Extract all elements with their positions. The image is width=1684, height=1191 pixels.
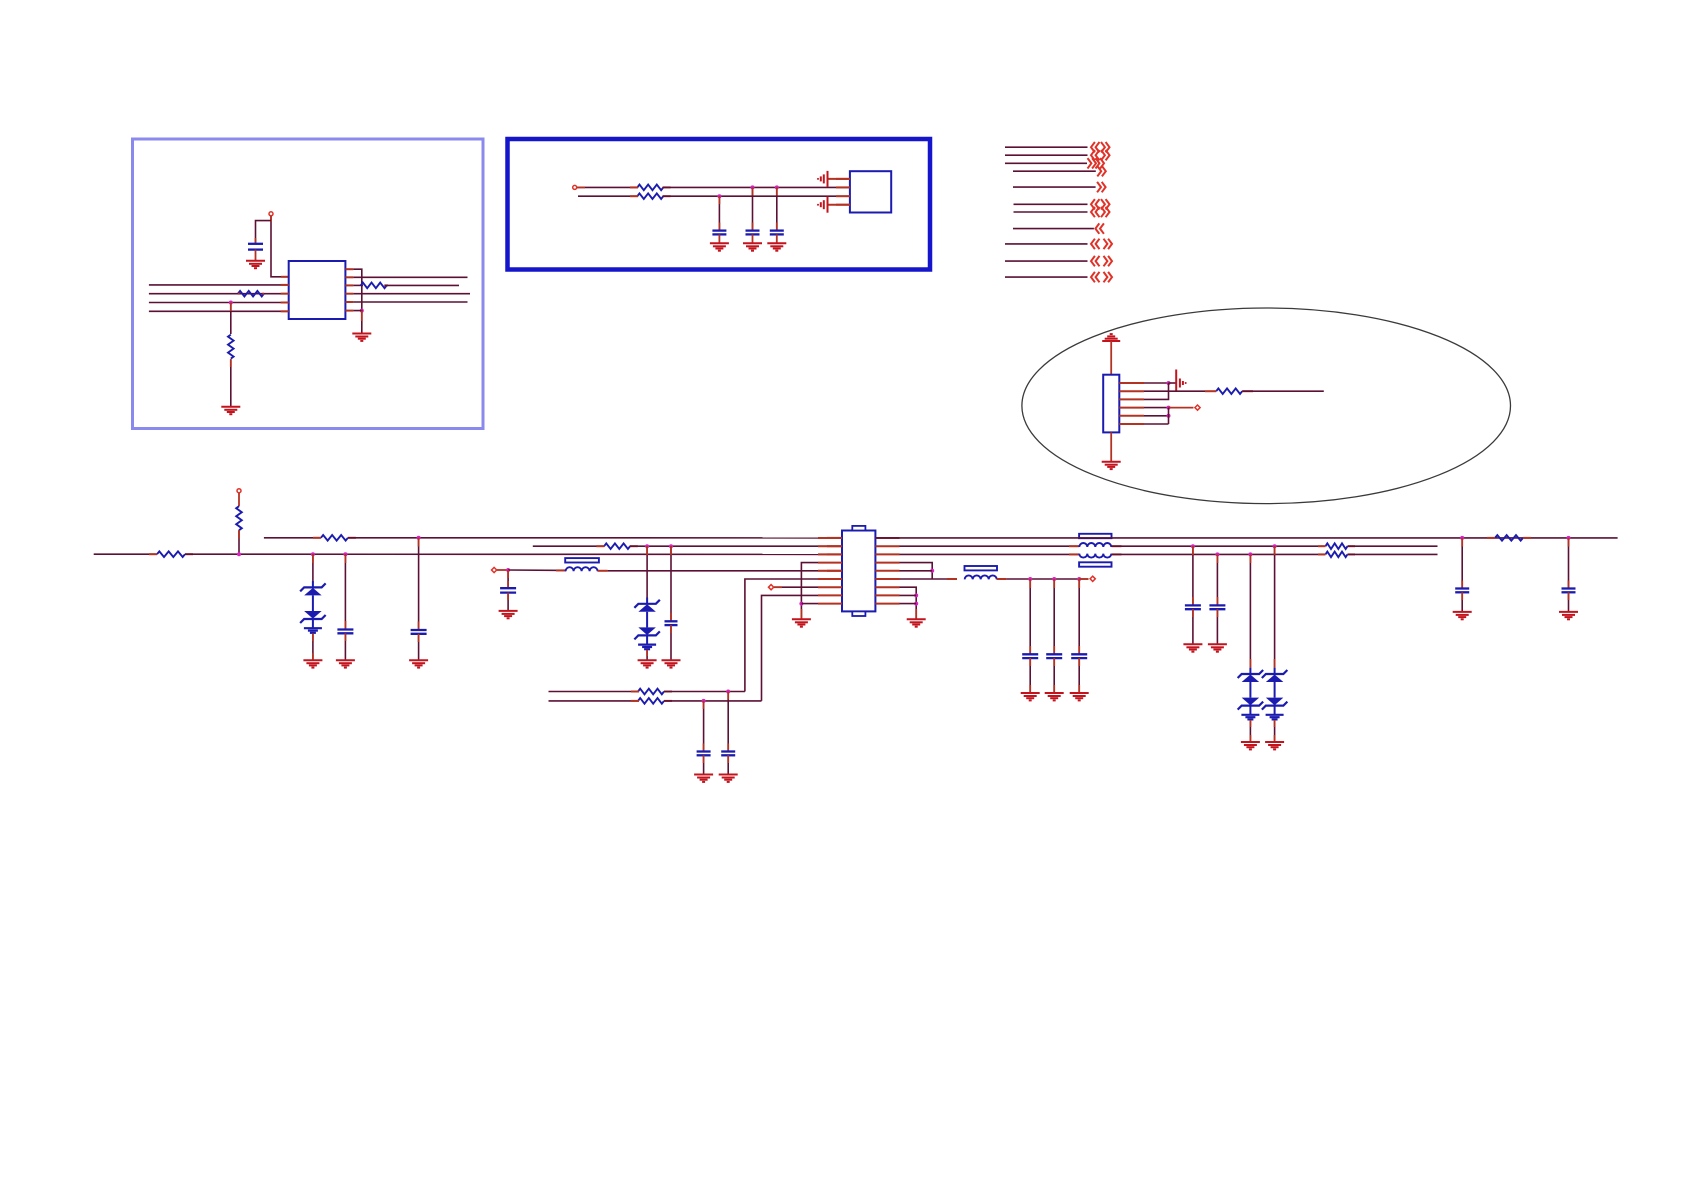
resistor R7 <box>1216 388 1242 394</box>
ground J2 pin1 (sideways) <box>1176 370 1187 391</box>
resistor RC <box>321 535 348 541</box>
zener D3 pair <box>1238 670 1264 715</box>
wire harness net 1 <box>1005 146 1088 148</box>
wire harness net 10 <box>1005 260 1088 262</box>
zener D3 pair blue earth <box>1241 715 1259 720</box>
wire harness net 9 <box>1005 243 1088 245</box>
wire J2 pin3 tie <box>1144 383 1169 399</box>
junction Z3 <box>1248 552 1252 556</box>
chevron port left 1 <box>1091 142 1100 152</box>
red stub C11 b <box>1078 646 1080 654</box>
red stub Z3 d <box>1249 735 1251 742</box>
pin red stub U1 R y538.0 <box>875 537 899 539</box>
wire P2 lower <box>578 195 638 197</box>
pin red stub U1 L y562.6 <box>818 562 842 564</box>
pin red stub U2 left y293.7 <box>281 293 289 295</box>
ground C7 <box>662 660 681 667</box>
red stub C3 mid <box>752 223 754 231</box>
junction J2 pin1 <box>1167 381 1171 385</box>
capacitor C17 <box>697 752 711 756</box>
wire C17 gnd <box>703 755 705 774</box>
junction C4 tap <box>775 185 779 189</box>
chevron port right 2 <box>1101 150 1110 160</box>
junction C2 tap <box>717 194 721 198</box>
ground C3 <box>743 243 762 250</box>
red stub C10 a <box>1053 579 1055 588</box>
red stubs RG <box>1318 553 1355 555</box>
red stub C5 b <box>344 621 346 630</box>
wire C6 gnd <box>418 634 420 660</box>
wire J2 pin4 to port <box>1169 407 1194 409</box>
IC U1 bottom tab <box>852 611 865 616</box>
wire Z1 drop <box>312 554 314 581</box>
chevron port right 5 <box>1097 182 1106 192</box>
wire Z4 gnd <box>1274 720 1276 742</box>
wire C12 drop <box>1461 538 1463 589</box>
port PD2 <box>492 567 497 572</box>
red stub C4 mid <box>776 223 778 231</box>
ground J2 top (inverted) <box>1102 334 1120 341</box>
IC U1 <box>842 531 875 612</box>
red stub C7 b <box>670 613 672 621</box>
ground U1 right <box>907 619 926 626</box>
red stubs RD <box>596 545 637 547</box>
junction U2 line3 <box>229 301 233 305</box>
junction C8 tap <box>506 568 510 572</box>
resistor RA <box>157 551 185 557</box>
junction C6 bus B <box>417 536 421 540</box>
red stub Z2 top <box>646 546 648 555</box>
wire R3 pulldown top <box>230 303 232 335</box>
red stub C5 c <box>344 633 346 641</box>
red stubs R5 <box>630 186 671 188</box>
ground D2 <box>638 660 657 667</box>
wire U1 q4 tie <box>900 563 933 579</box>
resistor R2 (U2 left line 2) <box>238 291 264 297</box>
red stub C7 a <box>670 546 672 555</box>
pin red stub U1 R y546.2 <box>875 545 899 547</box>
ground D4 <box>1265 742 1284 749</box>
transformer T1 common-mode choke <box>1079 534 1111 538</box>
wire J2 pin6 tie <box>1144 423 1169 425</box>
wire J2 pin456 vertical <box>1168 408 1170 424</box>
junction C3 tap <box>751 185 755 189</box>
wire U2 right line3a <box>353 284 363 286</box>
zener D2 pair blue earth <box>638 645 656 650</box>
capacitor C3 <box>746 231 760 235</box>
red stub U2 gnd col <box>361 311 363 321</box>
red stub R3 bottom <box>230 359 232 367</box>
wire U1 p9 tie <box>801 603 818 605</box>
wire C9 gnd <box>1029 658 1031 693</box>
wire Z3 gnd <box>1249 720 1251 742</box>
red stubs R6 <box>630 195 671 197</box>
wire C2 drop <box>718 196 720 230</box>
wire U1 q8 tie <box>900 594 917 596</box>
red stubs RC <box>313 537 356 539</box>
red stub C11 c <box>1078 658 1080 666</box>
wire C16 drop <box>727 692 729 752</box>
blue lead Z4 <box>1274 668 1276 674</box>
wire red port stub <box>270 216 272 222</box>
red stub C5 a <box>344 554 346 563</box>
red stub Z1 bot a <box>312 633 314 641</box>
pin stubs R2 <box>238 293 264 295</box>
ground C10 <box>1045 693 1064 700</box>
IC U2 <box>289 261 346 319</box>
inductor FB2 coil <box>965 575 997 579</box>
red stub choke in bot <box>1069 553 1079 555</box>
chevron port left 9 <box>1091 239 1100 249</box>
port P3 <box>237 489 241 493</box>
red stub bead2 in <box>947 578 957 580</box>
wire harness net 5 <box>1013 186 1096 188</box>
ground C11 <box>1070 693 1089 700</box>
pin red stub U1 L y570.8 <box>818 570 842 572</box>
pin red stub U1 L y579.0 <box>818 578 842 580</box>
pin red stub U1 R y595.4 <box>875 594 899 596</box>
chevron port left 10 <box>1091 256 1100 266</box>
wire Z2 drop <box>646 546 648 597</box>
pin red stub J1 pin4 ext <box>828 204 850 206</box>
junction U1 left gnd <box>799 602 803 606</box>
pin red stub J2 y399.4 <box>1119 398 1144 400</box>
red stub C13 b <box>1568 581 1570 589</box>
resistor RH <box>638 689 664 695</box>
wire bus C right b <box>1112 545 1326 547</box>
red stub bead2 out <box>997 578 1007 580</box>
red stub Z1 bot b <box>312 653 314 660</box>
wire bus D right a <box>900 553 1080 555</box>
ground D1 <box>303 660 322 667</box>
ground C12 <box>1453 612 1472 619</box>
red stub C6 a <box>418 538 420 547</box>
port P1 <box>269 212 273 216</box>
wire q6 a <box>900 578 956 580</box>
red stub Z3 b <box>1249 659 1251 668</box>
inductor T1 upper coil <box>1079 543 1111 547</box>
pin red stub U2 right y277.3 <box>345 276 353 278</box>
wire U2 left y302.5 <box>149 302 289 304</box>
ground C6 <box>409 660 428 667</box>
red stub C12 a <box>1461 538 1463 547</box>
pin red stub U2 right y269.2 <box>345 268 353 270</box>
wire bus B right <box>875 537 1617 539</box>
ellipse callout <box>1022 308 1511 504</box>
red stub C11 a <box>1078 579 1080 588</box>
ferrite bead FB1 bar <box>565 558 599 562</box>
red stub C9 d <box>1029 685 1031 693</box>
red stub C8 b <box>507 581 509 588</box>
wire J2 top <box>1110 341 1112 375</box>
pin red stub J1 y196.2 <box>836 195 850 197</box>
capacitor C15 <box>1209 605 1225 609</box>
pin red stub U1 L y546.2 <box>818 545 842 547</box>
ground C17 <box>694 775 713 782</box>
red stub RB bot <box>238 530 240 538</box>
port PD1 <box>1195 405 1200 410</box>
connector J1 <box>850 171 891 212</box>
wire bead1 line a <box>508 569 566 571</box>
pin red stub U2 left y284.9 <box>281 284 289 286</box>
wire C13 drop <box>1568 538 1570 589</box>
chevron port left 2 <box>1091 150 1100 160</box>
red stub Z4 b <box>1274 659 1276 668</box>
junction C17 <box>702 699 706 703</box>
wire C9 drop <box>1029 579 1031 654</box>
port PD4 <box>1090 576 1095 581</box>
wire U1 p8 route <box>762 595 819 701</box>
zener D4 pair blue earth <box>1266 715 1284 720</box>
wire U1 q7 gnd rail <box>900 587 917 619</box>
red stub U1 pin1L <box>827 537 842 539</box>
wire R3 to ground <box>230 359 232 407</box>
red stub PD3 <box>774 586 782 588</box>
red stub Z4 a <box>1274 546 1276 555</box>
wire C15 gnd <box>1216 609 1218 644</box>
wire C6 drop <box>418 538 420 630</box>
wire lower bus 1 b <box>664 691 745 693</box>
capacitor C8 <box>500 588 516 592</box>
chevron port left 11 <box>1091 272 1100 282</box>
junction Z1 bus A <box>311 552 315 556</box>
red stub C14 c <box>1192 609 1194 617</box>
wire lower bus 1 a <box>549 691 640 693</box>
ground J1 pin1 (sideways) <box>817 171 828 187</box>
junction C15 <box>1215 552 1219 556</box>
resistor R6 lower <box>637 193 663 199</box>
wire lower bus 2 a <box>549 700 640 702</box>
pin red stub U1 R y603.6 <box>875 603 899 605</box>
wire bus C seg2 <box>630 545 842 547</box>
resistor RD <box>604 543 630 549</box>
blue lead Z1 <box>312 581 314 587</box>
junction J2 pin4 <box>1167 406 1171 410</box>
wire Z1 to gnd <box>312 633 314 660</box>
ground U1 left <box>792 619 811 626</box>
chevron port rightA 3 <box>1088 158 1097 168</box>
junction RB bus A <box>237 552 241 556</box>
red stub C9 c <box>1029 658 1031 666</box>
wire P2 upper <box>577 186 638 188</box>
junction U2 right gnd <box>360 309 364 313</box>
chevron port right 9 <box>1104 239 1113 249</box>
pin red stub U2 right y310.6 <box>345 310 353 312</box>
capacitor C16 <box>721 752 735 756</box>
wire bus B seg1 <box>264 537 321 539</box>
wire bus C seg1 <box>533 545 605 547</box>
pin red stub U1 L y603.6 <box>818 603 842 605</box>
junction C11 <box>1077 577 1081 581</box>
wire J2 pin5 tie <box>1144 415 1169 417</box>
capacitor C5 <box>337 630 353 634</box>
red stub C15 b <box>1216 597 1218 605</box>
wire C5 gnd <box>344 633 346 660</box>
red stubs RH <box>631 691 672 693</box>
wire U2 right line2 <box>353 276 467 278</box>
red stubs RE <box>1487 537 1531 539</box>
wire J2 pin2 b <box>1242 390 1324 392</box>
pin red stub J1 y178.9 <box>836 178 850 180</box>
chevron port right 10 <box>1104 256 1113 266</box>
junction U1 q8 <box>914 593 918 597</box>
pin red stub U2 right y285.4 <box>345 284 353 286</box>
capacitor C14 <box>1185 605 1201 609</box>
red stub C14 b <box>1192 597 1194 605</box>
capacitor C12 <box>1455 589 1469 593</box>
junction U1 q9 <box>914 602 918 606</box>
ground C14 <box>1183 644 1202 651</box>
resistor R4 (U2 right line3) <box>361 283 387 289</box>
red stub choke in top <box>1069 545 1079 547</box>
red stub Z4 c <box>1274 720 1276 727</box>
red stub C6 b <box>418 622 420 631</box>
IC U1 top tab <box>852 526 865 531</box>
red stub C3 bot <box>752 234 754 243</box>
ground C4 <box>767 243 786 250</box>
red stub choke out top <box>1112 545 1122 547</box>
red stub bead1 in <box>556 569 566 571</box>
red stub choke out bot <box>1112 553 1122 555</box>
red stub C8 c <box>507 593 509 600</box>
wire C8 gnd <box>507 593 509 611</box>
red stubs RF <box>1318 545 1355 547</box>
wire harness net 8 <box>1013 228 1094 230</box>
chevron port rightB 3 <box>1096 158 1105 168</box>
red stub C7 c <box>670 625 672 633</box>
junction J2 pin5 <box>1167 414 1171 418</box>
resistor R3 pulldown <box>228 335 234 359</box>
pin red stub J2 y383.0 <box>1119 382 1144 384</box>
port PD3 <box>769 585 774 590</box>
junction C5 bus A <box>343 552 347 556</box>
ground C1 <box>246 261 265 268</box>
wire Z3 drop <box>1249 554 1251 667</box>
junction C7 bus C <box>669 544 673 548</box>
red stub U1 pin5L <box>827 570 842 572</box>
red stub Z1 top <box>312 554 314 563</box>
wire bus B seg2 <box>348 537 842 539</box>
pin red stub U2 left y302.5 <box>281 302 289 304</box>
pin red stub U1 L y595.4 <box>818 594 842 596</box>
pin red stub J2 y424.0 <box>1119 423 1144 425</box>
resistor R5 upper <box>637 185 663 191</box>
wire bus D right b <box>1112 553 1326 555</box>
chevron port left 8 <box>1095 223 1104 233</box>
inductor FB1 coil <box>566 567 598 571</box>
wire harness net 4 <box>1013 170 1096 172</box>
pin red stub U2 left y311.3 <box>281 310 289 312</box>
wire C7 gnd <box>670 625 672 660</box>
red stub C8 a <box>507 570 509 578</box>
capacitor C6 <box>411 630 427 634</box>
ground R3 <box>221 407 240 414</box>
ground C8 <box>499 611 518 618</box>
wire q6 to port <box>1079 578 1088 580</box>
wire J2 bottom <box>1110 432 1112 461</box>
wire J2 pin1 <box>1144 382 1169 384</box>
wire J2 pin4 <box>1144 407 1169 409</box>
wire C8 drop <box>507 570 509 588</box>
wire red stub C1 bottom <box>255 250 257 261</box>
wire port P1 to U2 pin1 <box>271 216 289 277</box>
wire C14 gnd <box>1192 609 1194 644</box>
inductor T1 lower coil <box>1079 554 1111 558</box>
wire bus D right c <box>1348 553 1438 555</box>
red stub C3 top <box>752 187 754 195</box>
blue lead Z3 <box>1249 668 1251 674</box>
chevron port right 1 <box>1101 142 1110 152</box>
pin red stub U1 R y579.0 <box>875 578 899 580</box>
zener D1 pair <box>300 583 326 628</box>
capacitor C1 <box>248 244 263 250</box>
wire C13 gnd <box>1568 592 1570 612</box>
capacitor C2 <box>712 231 726 235</box>
red stub C12 b <box>1461 581 1463 589</box>
red stub C13 c <box>1568 592 1570 600</box>
zener D1 pair blue earth <box>304 628 322 633</box>
red stub C17 c <box>703 755 705 763</box>
wire harness net 6 <box>1014 203 1088 205</box>
wire harness net 7 <box>1014 211 1088 213</box>
junction C16 <box>726 690 730 694</box>
red stub Z4 d <box>1274 735 1276 742</box>
junction C14 <box>1191 544 1195 548</box>
wire J2 pin1 to sideways gnd <box>1169 382 1177 384</box>
red stub C17 a <box>703 701 705 709</box>
wire U2 right pin1 to gnd rail <box>353 269 361 310</box>
pin red stub J1 y204.7 <box>836 204 850 206</box>
wire C17 drop <box>703 701 705 752</box>
pin red stub U1 R y587.2 <box>875 586 899 588</box>
red stubs RI <box>631 700 672 702</box>
capacitor C10 <box>1046 654 1062 658</box>
ground D3 <box>1241 742 1260 749</box>
ground U2 right <box>352 334 371 341</box>
wire PD2 to junction <box>497 569 508 571</box>
red stub Z3 c <box>1249 720 1251 727</box>
wire harness net 11 <box>1005 276 1088 278</box>
junction C12 <box>1460 536 1464 540</box>
chevron port right 4 <box>1097 166 1106 176</box>
pin red stub J2 y391.2 <box>1119 390 1144 392</box>
wire P3 stub <box>238 493 240 506</box>
junction C10 <box>1052 577 1056 581</box>
red stub Z3 a <box>1249 554 1251 563</box>
junction C9 <box>1028 577 1032 581</box>
wire U1 p4 gnd rail <box>801 563 818 620</box>
capacitor C7 <box>665 621 678 625</box>
pin red stub J1 y187.4 <box>836 186 850 188</box>
wire U1 q5 tie <box>900 570 933 572</box>
red stub R3 top <box>230 303 232 312</box>
ground C2 <box>710 243 729 250</box>
wire bead1 line b <box>608 570 842 572</box>
wire harness net 3 <box>1005 162 1087 164</box>
wire C11 gnd <box>1078 658 1080 693</box>
connector J2 <box>1103 375 1119 433</box>
ground C16 <box>719 775 738 782</box>
wire Z2 gnd <box>646 650 648 660</box>
wire C16 gnd <box>727 755 729 774</box>
ferrite bead FB2 bar <box>965 566 998 570</box>
junction C13 <box>1567 536 1571 540</box>
chevron port left 6 <box>1091 199 1100 209</box>
wire U2 left y293.7 <box>149 293 289 295</box>
ground J2 bottom <box>1102 462 1121 469</box>
wire bus A seg2 <box>185 553 842 555</box>
red stub C10 c <box>1053 658 1055 666</box>
